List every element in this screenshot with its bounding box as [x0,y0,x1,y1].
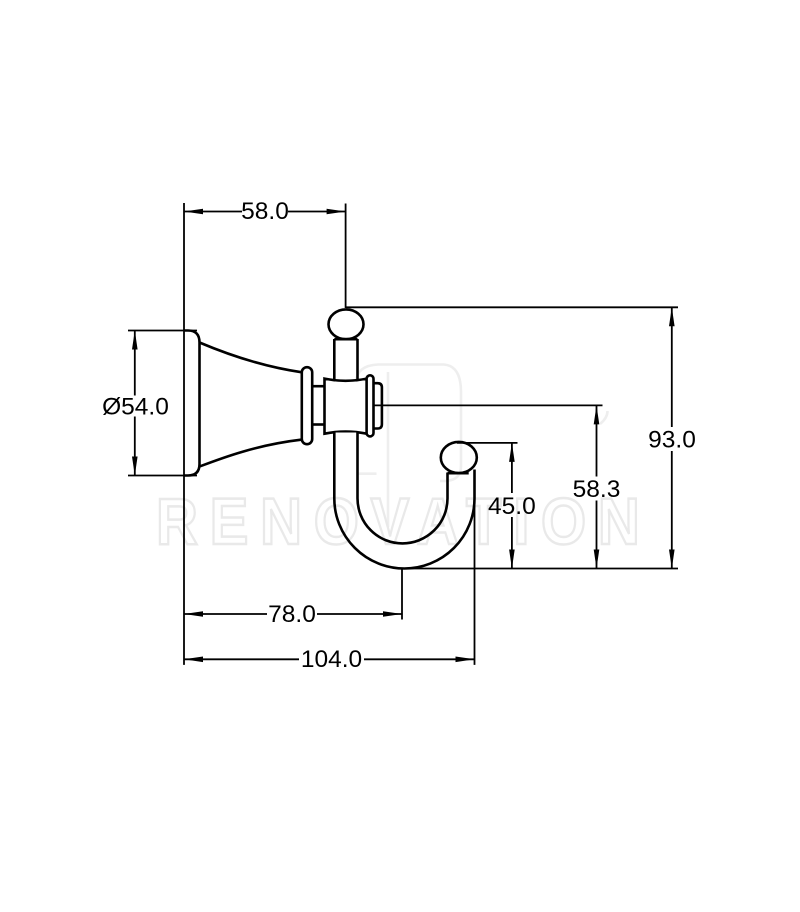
104.0 right extension line [474,498,476,665]
45.0 top extension line [457,442,518,444]
dia 54 dimension line segments [134,331,136,476]
104.0 dimension line segments [184,658,475,660]
neck connector top line [310,385,326,388]
58.3 bottom arrow [594,550,600,569]
58.0 dimension line segments [184,211,346,213]
58.3 top arrow [594,405,600,424]
dia54 bottom arrow [132,457,138,476]
svg-text:RENOVATION: RENOVATION [156,486,652,559]
tip ball joint line [448,472,469,475]
104.0 right arrow [456,657,475,663]
78.0 dimension line segments [184,613,402,615]
45.0 top arrow [509,443,515,462]
svg-text:93.0: 93.0 [648,426,696,453]
78.0 right extension line [401,569,403,620]
hook outer curve [334,433,474,569]
hook tube white fill [334,433,474,569]
svg-text:Ø54.0: Ø54.0 [102,393,169,420]
58.0 right extension line [345,204,347,309]
hub block [325,379,367,434]
wall plate (flange base, side view) [184,331,200,476]
93.0 dimension line segments [671,307,673,568]
58.0 right arrow [327,209,346,215]
dia 54 top extension line [128,330,197,332]
dia54 top arrow [132,331,138,350]
45.0 dimension line segments [511,443,513,569]
watermark logo corner stroke [356,365,461,482]
bottom baseline extension line [402,568,678,570]
stem upper right line [356,339,359,380]
svg-text:104.0: 104.0 [301,646,362,673]
left extension line (wall line) [183,203,185,665]
svg-text:78.0: 78.0 [268,601,316,628]
top ball joint line [334,338,357,341]
hook tip ball [441,442,477,473]
top ball finial [329,309,364,339]
watermark logo fragment [600,411,608,424]
watermark logo small dash [357,472,376,475]
93.0 bottom arrow [669,550,675,569]
58.3 top extension line [374,404,603,406]
78.0 right arrow [383,611,402,617]
hub end cap [373,383,382,428]
93.0 top extension line [346,306,678,308]
collar ring [302,367,312,444]
hook inner curve [358,433,448,544]
dia 54 bottom extension line [128,475,197,477]
58.0 left arrow [184,209,203,215]
104.0 left arrow [184,657,203,663]
bell bottom curve [200,440,303,467]
58.3 dimension line segments [596,405,598,568]
93.0 top arrow [669,307,675,326]
78.0 left arrow [184,611,203,617]
watermark logo left bar [387,372,390,527]
bell top curve [200,343,303,373]
45.0 bottom arrow [509,550,515,569]
neck connector bottom line [310,423,326,426]
stem upper left line [333,339,336,380]
hub ring [367,375,374,436]
svg-text:58.0: 58.0 [241,198,289,225]
